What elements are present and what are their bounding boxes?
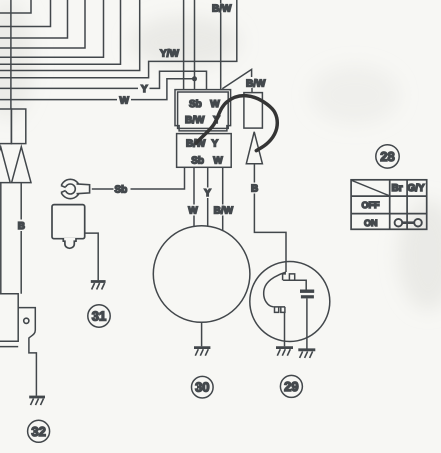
svg-text:Y: Y xyxy=(212,139,219,150)
junction dot xyxy=(192,76,197,81)
svg-text:32: 32 xyxy=(31,424,45,439)
svg-text:Y: Y xyxy=(204,188,211,199)
eyelet terminal xyxy=(58,179,90,198)
svg-text:G/Y: G/Y xyxy=(408,183,426,194)
svg-text:W: W xyxy=(120,95,130,106)
svg-text:31: 31 xyxy=(92,309,106,324)
wire fan 4 xyxy=(0,0,85,48)
svg-text:B/W: B/W xyxy=(246,79,266,90)
wire fan 1 xyxy=(0,0,31,13)
wire W to magneto xyxy=(193,167,195,226)
switch table xyxy=(351,180,427,230)
wire vertical left xyxy=(10,0,12,109)
svg-text:W: W xyxy=(188,206,198,217)
condenser bar 1 xyxy=(300,290,314,293)
ground lamp right xyxy=(298,350,315,358)
wire vertical A xyxy=(183,0,185,90)
ground bracket xyxy=(29,397,45,405)
item number 31 xyxy=(88,305,110,327)
wire condenser to ground xyxy=(306,298,308,348)
bracket xyxy=(18,308,36,357)
marker annotation curve xyxy=(196,96,277,151)
lamp bulb hook xyxy=(264,272,286,307)
diode triangle B xyxy=(12,147,31,183)
wire relay to ground xyxy=(85,233,99,280)
wire tab to ground xyxy=(284,312,286,346)
svg-text:ON: ON xyxy=(364,218,378,228)
wire B/W top xyxy=(220,0,222,90)
pointer line to B/W label xyxy=(222,69,251,88)
wire left edge xyxy=(0,183,2,294)
wire fan 3 xyxy=(0,0,68,38)
wire W xyxy=(0,79,195,100)
wire vertical B xyxy=(194,0,196,90)
svg-text:Y/W: Y/W xyxy=(160,49,179,60)
bulb base profile xyxy=(283,274,307,290)
wire Sb to eyelet xyxy=(92,167,185,189)
connector U1 upper shell xyxy=(175,90,231,131)
svg-text:30: 30 xyxy=(195,380,209,395)
svg-text:B/W: B/W xyxy=(214,206,234,217)
diode triangle A xyxy=(0,147,10,183)
lamp 29 shell xyxy=(250,262,330,342)
cdi bottom line xyxy=(0,346,18,348)
bracket hole xyxy=(24,318,29,323)
ground relay xyxy=(91,282,106,290)
wire fan 6 xyxy=(0,0,121,64)
bulb contact tabs xyxy=(274,307,285,313)
wire fan 5 xyxy=(0,0,104,57)
switch contact xyxy=(395,219,422,227)
magneto 30 xyxy=(153,226,250,323)
wire bracket to ground xyxy=(35,357,37,396)
svg-text:Br: Br xyxy=(392,183,403,194)
paper smudges xyxy=(0,0,441,310)
svg-text:Sb: Sb xyxy=(191,156,204,167)
rectifier block B xyxy=(11,109,25,144)
svg-text:B: B xyxy=(18,221,25,232)
svg-text:W: W xyxy=(213,156,223,167)
svg-text:OFF: OFF xyxy=(362,200,380,210)
item number 29 xyxy=(280,375,302,397)
svg-text:29: 29 xyxy=(284,379,298,394)
item number 28 xyxy=(376,145,399,168)
rectifier body xyxy=(244,93,263,129)
wire fan 7 xyxy=(0,0,140,71)
condenser bar 2 xyxy=(301,295,314,298)
rectifier block A xyxy=(0,109,11,144)
svg-text:Sb: Sb xyxy=(115,184,128,195)
svg-text:B/W: B/W xyxy=(212,4,232,15)
wire Y/W xyxy=(0,0,237,78)
wire B xyxy=(254,164,286,272)
ground lamp left xyxy=(276,348,293,356)
svg-text:B/W: B/W xyxy=(185,115,205,126)
wire Y to magneto xyxy=(207,167,209,226)
relay 31 body xyxy=(52,205,85,249)
svg-text:W: W xyxy=(210,99,220,110)
rectifier diode triangle xyxy=(246,132,262,164)
wire fan 2 xyxy=(0,0,51,27)
cdi unit box xyxy=(0,294,18,341)
connector U1 upper inner xyxy=(178,92,229,128)
svg-text:28: 28 xyxy=(380,149,394,164)
wire B left xyxy=(20,183,22,294)
svg-text:B: B xyxy=(251,184,258,195)
wire magneto to ground xyxy=(201,322,203,346)
wire label tick xyxy=(251,88,253,93)
item number 32 xyxy=(28,420,50,442)
ground magneto xyxy=(194,348,210,356)
connector U1 lower shell xyxy=(177,134,232,168)
svg-text:Y: Y xyxy=(141,84,148,95)
wire Y xyxy=(0,71,207,90)
wire B/W to magneto xyxy=(222,167,224,231)
svg-text:Sb: Sb xyxy=(189,99,202,110)
item number 30 xyxy=(192,376,214,398)
